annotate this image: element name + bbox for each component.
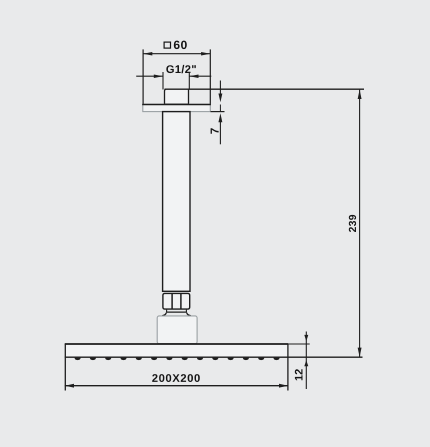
- extension line G1/2 left: [162, 72, 164, 90]
- connector nut: [163, 293, 190, 309]
- dim 7 upper line and down arrow: [218, 81, 222, 112]
- flange plate: [142, 104, 211, 111]
- dim label 200X200: [152, 374, 200, 382]
- shower head body: [65, 344, 288, 358]
- dim label square-60: [164, 41, 187, 50]
- dim line G1/2 right: [189, 74, 211, 78]
- collar: [166, 310, 187, 313]
- shower head bottom face line: [65, 356, 363, 358]
- ceiling extension line: [165, 88, 365, 90]
- dim label G1/2": [166, 65, 196, 73]
- extension line 60 left: [142, 49, 144, 104]
- nozzles: [75, 358, 280, 361]
- dim 12 vertical line: [304, 332, 308, 390]
- extension line G1/2 right: [188, 72, 190, 90]
- dim label 7: [211, 128, 219, 133]
- extension line 60 right: [209, 49, 211, 104]
- flare skirt: [162, 313, 191, 316]
- mounting block: [157, 316, 197, 344]
- shower head left edge: [64, 344, 66, 391]
- dim line G1/2 left: [136, 74, 163, 78]
- dim label 239: [349, 215, 356, 232]
- dim 239 vertical line: [358, 90, 362, 357]
- shower head right edge: [287, 344, 289, 391]
- shower arm: [163, 112, 190, 292]
- thread stub box: [165, 89, 189, 104]
- dim line 60: [143, 52, 210, 56]
- dim line 200X200: [65, 384, 288, 388]
- dim 7 tick at flange bottom: [211, 111, 225, 113]
- head top extension for 12 dim: [288, 343, 310, 345]
- shower head top line: [65, 343, 288, 345]
- dim 7 lower up arrow: [218, 113, 222, 144]
- dim label 12: [295, 369, 303, 380]
